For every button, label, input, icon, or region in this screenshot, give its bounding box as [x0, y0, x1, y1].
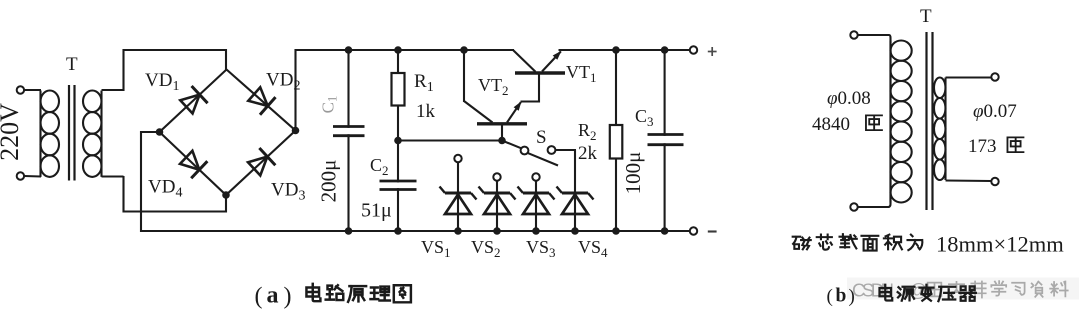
svg-text:CSDN: CSDN — [852, 280, 894, 301]
svg-text:4840: 4840 — [812, 114, 850, 135]
svg-text:1k: 1k — [416, 101, 436, 122]
svg-text:a: a — [267, 283, 279, 309]
svg-text:φ0.08: φ0.08 — [827, 88, 871, 109]
svg-text:(: ( — [827, 286, 833, 307]
svg-text:51μ: 51μ — [361, 200, 392, 222]
svg-text:b: b — [836, 286, 847, 307]
svg-text:T: T — [920, 6, 932, 27]
svg-text:220V: 220V — [0, 103, 24, 161]
svg-text:200μ: 200μ — [317, 160, 341, 203]
svg-text:): ) — [849, 286, 855, 307]
svg-text:2k: 2k — [578, 143, 598, 164]
svg-text:φ0.07: φ0.07 — [973, 101, 1017, 122]
svg-text:T: T — [66, 54, 78, 75]
svg-text:S: S — [536, 127, 547, 148]
svg-text:): ) — [284, 284, 292, 310]
svg-text:18mm×12mm: 18mm×12mm — [936, 232, 1064, 257]
svg-text:173: 173 — [968, 136, 997, 157]
svg-text:(: ( — [255, 284, 263, 310]
svg-text:100μ: 100μ — [621, 152, 645, 195]
